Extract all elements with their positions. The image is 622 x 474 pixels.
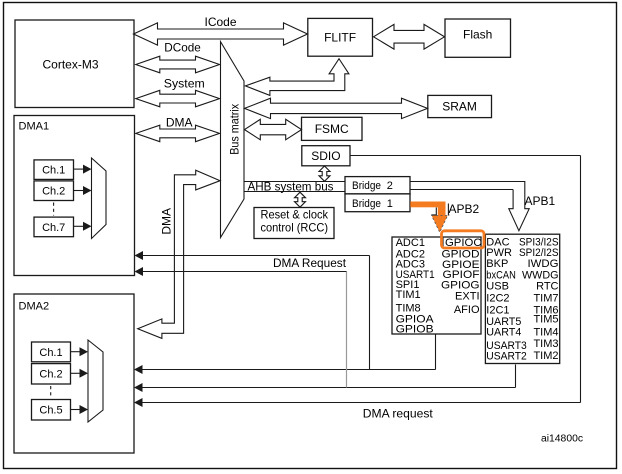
svg-text:SDIO: SDIO bbox=[311, 149, 340, 163]
svg-text:TIM8: TIM8 bbox=[396, 303, 421, 315]
svg-text:Ch.5: Ch.5 bbox=[39, 405, 62, 417]
label DMA Request bbox=[273, 256, 347, 270]
channel box DMA2 Ch.1 bbox=[32, 342, 71, 362]
svg-text:TIM4: TIM4 bbox=[533, 327, 558, 339]
arrow DMA1 Ch.1 to mux bbox=[74, 165, 92, 174]
block Bridge 2 bbox=[345, 177, 410, 194]
arrowhead DMA Request line1 into DMA1 bbox=[135, 251, 144, 260]
block Bridge 1 bbox=[345, 194, 410, 212]
label AHB system bus bbox=[248, 180, 334, 194]
svg-text:TIM1: TIM1 bbox=[396, 289, 421, 301]
block FLITF bbox=[308, 18, 373, 56]
channel box DMA1 Ch.1 bbox=[34, 160, 74, 180]
svg-text:DMA: DMA bbox=[159, 208, 173, 235]
block Flash bbox=[445, 19, 511, 57]
dashed line DMA2 Ch.2 to Ch.5 bbox=[50, 386, 52, 398]
svg-text:EXTI: EXTI bbox=[455, 290, 479, 302]
label DMA request bottom bbox=[363, 406, 434, 420]
arrow DMA2 Ch.1 to mux bbox=[71, 347, 89, 356]
elbow bus arrow bus matrix to FLITF bbox=[245, 59, 349, 96]
hollow arrow APB2 down under orange bbox=[431, 204, 449, 215]
hollow arrow APB1 down bbox=[509, 182, 529, 231]
bus arrow bus matrix to SRAM bbox=[245, 98, 428, 118]
block FSMC bbox=[302, 117, 363, 140]
svg-text:Ch.7: Ch.7 bbox=[42, 222, 65, 234]
arrowhead APB1 request into DMA2 bbox=[134, 383, 143, 392]
wire DMA request bottom line bbox=[141, 402, 581, 404]
label ICode bbox=[205, 15, 237, 29]
arrowhead DMA Request line2 into DMA1 bbox=[135, 267, 144, 276]
svg-text:control (RCC): control (RCC) bbox=[261, 221, 329, 235]
label ai14800c bbox=[541, 434, 583, 445]
wire AHB bus lower line bbox=[244, 191, 345, 193]
block SDIO bbox=[302, 146, 350, 166]
label GPIOC bbox=[445, 237, 482, 249]
GPIOC cell black underline bbox=[443, 238, 481, 248]
bus arrow bus matrix to FSMC bbox=[245, 119, 302, 140]
svg-text:TIM5: TIM5 bbox=[533, 313, 558, 325]
svg-text:Bridge: Bridge bbox=[352, 198, 381, 210]
svg-text:ADC1: ADC1 bbox=[396, 237, 425, 249]
svg-text:APB1: APB1 bbox=[525, 194, 556, 208]
wire DMA Request line 1 to DMA1 bbox=[141, 255, 370, 257]
svg-text:TIM3: TIM3 bbox=[533, 338, 558, 350]
label APB2 bbox=[449, 202, 480, 216]
arrow DMA1 Ch.2 to mux bbox=[74, 186, 92, 195]
svg-text:FLITF: FLITF bbox=[324, 31, 356, 45]
label System bbox=[164, 76, 205, 90]
arbiter mux DMA1 bbox=[92, 158, 107, 239]
arrow DMA2 Ch.5 to mux bbox=[71, 405, 89, 414]
svg-text:DMA2: DMA2 bbox=[19, 300, 50, 312]
svg-text:System: System bbox=[164, 76, 205, 90]
orange arrow Bridge 1 to APB2/GPIOC bbox=[410, 202, 447, 233]
arbiter mux DMA2 bbox=[88, 340, 103, 422]
bus matrix block bbox=[221, 42, 245, 238]
wire APB1 request gray branch vertical bbox=[346, 272, 348, 388]
svg-text:2: 2 bbox=[387, 180, 393, 192]
channel box DMA2 Ch.2 bbox=[32, 364, 71, 384]
svg-text:ai14800c: ai14800c bbox=[541, 434, 583, 445]
wire Bridge2 to APB1 upper line bbox=[410, 181, 525, 183]
wire APB1 request horizontal to DMA2 bbox=[140, 387, 516, 389]
block APB2 peripherals bbox=[392, 237, 481, 336]
svg-text:Ch.2: Ch.2 bbox=[39, 369, 62, 381]
svg-text:DMA: DMA bbox=[166, 115, 193, 129]
svg-text:AHB system bus: AHB system bus bbox=[248, 180, 334, 194]
bus arrow DMA DMA1 to bus matrix bbox=[136, 125, 220, 142]
svg-text:bxCAN: bxCAN bbox=[486, 269, 516, 281]
svg-text:I2C2: I2C2 bbox=[486, 293, 509, 305]
svg-text:SRAM: SRAM bbox=[442, 99, 477, 113]
arrow DMA2 Ch.2 to mux bbox=[71, 369, 89, 378]
label DCode bbox=[164, 41, 201, 55]
wire APB2 request branch vertical to DMA1 bbox=[369, 256, 371, 370]
wire APB2 request horizontal to DMA2 bbox=[140, 369, 436, 371]
channel box DMA1 Ch.2 bbox=[34, 181, 74, 201]
wire APB2 bottom vertical bbox=[435, 334, 437, 370]
svg-text:Cortex-M3: Cortex-M3 bbox=[43, 58, 99, 72]
arrowhead APB2 request into DMA2 bbox=[134, 365, 143, 374]
elbow bus arrow bus matrix to DMA2 bbox=[138, 170, 220, 338]
svg-text:USART2: USART2 bbox=[486, 351, 527, 363]
svg-text:DMA Request: DMA Request bbox=[273, 256, 347, 270]
svg-text:AFIO: AFIO bbox=[454, 304, 480, 316]
channel box DMA2 Ch.5 bbox=[32, 400, 71, 421]
svg-text:DMA request: DMA request bbox=[363, 406, 434, 420]
svg-text:GPIOB: GPIOB bbox=[396, 324, 434, 336]
arrowhead DMA request into DMA2 bbox=[134, 398, 143, 407]
block Reset and clock control RCC bbox=[254, 208, 334, 239]
svg-text:Flash: Flash bbox=[463, 28, 492, 42]
bus arrow DCode Cortex-M3 to bus matrix bbox=[136, 56, 220, 73]
svg-text:DMA1: DMA1 bbox=[19, 120, 50, 132]
orange highlight box around GPIOC bbox=[442, 231, 485, 248]
svg-text:TIM2: TIM2 bbox=[533, 350, 558, 362]
svg-text:Ch.2: Ch.2 bbox=[42, 186, 65, 198]
bus arrow System Cortex-M3 to bus matrix bbox=[136, 90, 220, 107]
wire AHB bus upper line bbox=[244, 181, 345, 183]
block DMA1 bbox=[14, 116, 135, 276]
block SRAM bbox=[428, 95, 492, 117]
svg-text:Reset & clock: Reset & clock bbox=[261, 208, 329, 222]
block Cortex-M3 bbox=[15, 20, 134, 108]
svg-text:APB2: APB2 bbox=[449, 202, 480, 216]
svg-text:UART4: UART4 bbox=[486, 327, 521, 339]
wire DMA Request line 2 to DMA1 bbox=[141, 271, 347, 273]
svg-text:USB: USB bbox=[486, 281, 509, 293]
svg-text:WWDG: WWDG bbox=[522, 269, 559, 281]
svg-text:TIM7: TIM7 bbox=[533, 293, 558, 305]
svg-text:1: 1 bbox=[387, 198, 393, 210]
svg-text:ICode: ICode bbox=[205, 15, 237, 29]
svg-text:BKP: BKP bbox=[486, 258, 508, 270]
bus arrow ICode Cortex-M3 to FLITF bbox=[134, 23, 308, 45]
svg-text:Ch.1: Ch.1 bbox=[42, 165, 65, 177]
label DMA horizontal bbox=[166, 115, 193, 129]
label APB1 bbox=[525, 194, 556, 208]
svg-text:Bus matrix: Bus matrix bbox=[228, 104, 242, 155]
label DMA vertical bbox=[159, 208, 173, 235]
svg-text:RTC: RTC bbox=[536, 281, 558, 293]
svg-text:DCode: DCode bbox=[164, 41, 201, 55]
wire APB1 bottom vertical bbox=[515, 365, 517, 388]
svg-text:I2C1: I2C1 bbox=[486, 304, 509, 316]
bus arrow FLITF to Flash bbox=[374, 24, 445, 49]
svg-text:Bridge: Bridge bbox=[352, 180, 381, 192]
channel box DMA1 Ch.7 bbox=[34, 217, 74, 237]
small arrow SDIO to AHB bbox=[319, 166, 330, 181]
svg-text:IWDG: IWDG bbox=[528, 258, 559, 270]
dashed line DMA1 Ch.2 to Ch.7 bbox=[53, 203, 55, 216]
small arrow AHB to RCC bbox=[295, 192, 306, 207]
svg-text:Ch.1: Ch.1 bbox=[39, 347, 62, 359]
wire right edge vertical bbox=[580, 156, 582, 403]
block DMA2 bbox=[14, 294, 134, 453]
svg-text:FSMC: FSMC bbox=[315, 122, 349, 136]
wire SDIO to right edge bbox=[350, 155, 581, 157]
arrow DMA1 Ch.7 to mux bbox=[74, 222, 92, 231]
wire Bridge2 to APB1 lower line bbox=[410, 189, 513, 191]
block APB1 peripherals bbox=[485, 234, 559, 363]
